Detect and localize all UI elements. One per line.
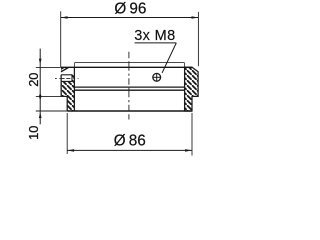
- arrow bottom (outside, pointing up): [39, 112, 42, 118]
- arrow diamond middle: [39, 93, 42, 100]
- spigot left vertical: [73, 62, 75, 67]
- left piece inner edge: [73, 67, 75, 111]
- inner spigot top thin line: [75, 61, 184, 63]
- arrow right: [192, 16, 199, 19]
- top face line: [61, 66, 192, 68]
- bottom face line: [67, 110, 192, 112]
- bore seat thick line: [74, 89, 184, 91]
- leader underline: [135, 42, 177, 44]
- extension line left (Ø96): [60, 11, 62, 67]
- left piece outer edge: [60, 75, 62, 97]
- dimension Ø86 line: [67, 149, 192, 151]
- flange section left piece: chamfer triangle (hatched): [61, 67, 69, 72]
- extension line bottom: [36, 110, 67, 112]
- chamfer triangle hatch gap: [61, 68, 65, 71]
- flange section left piece: sliver right of M8 hole end: [72, 75, 74, 82]
- arrow top (outside, pointing down): [39, 59, 42, 64]
- svg-text:3x M8: 3x M8: [134, 28, 175, 44]
- left piece step line: [61, 95, 67, 97]
- M8 hole centerline (dash-dot): [55, 77, 79, 79]
- extension line top (20): [36, 66, 61, 68]
- arrow right: [185, 149, 192, 152]
- dimension Ø96 line: [61, 17, 199, 19]
- left piece countersink chamfer line: [61, 67, 69, 72]
- svg-text:10: 10: [26, 126, 41, 140]
- extension line left (Ø86): [66, 113, 68, 154]
- leader line 3x M8: [162, 43, 176, 73]
- part vertical centerline (dash-dot): [128, 52, 130, 120]
- arrow left: [67, 149, 74, 152]
- extension line right (Ø96): [197, 12, 199, 66]
- svg-text:Ø 86: Ø 86: [114, 132, 146, 149]
- right piece outline: [185, 67, 199, 111]
- flange section left piece: body below M8 hole: [61, 81, 74, 111]
- M8 tapped hole symbol: [153, 73, 161, 81]
- extension line middle: [36, 95, 67, 97]
- spigot right vertical: [184, 62, 186, 67]
- svg-text:Ø 96: Ø 96: [114, 1, 146, 18]
- svg-text:20: 20: [26, 73, 41, 87]
- extension line right (Ø86): [191, 113, 193, 156]
- bore seat thin line: [74, 86, 184, 88]
- flange section right piece: [185, 67, 199, 111]
- M8 hole edge lines (left piece): [61, 74, 72, 76]
- left dimension line (20/10): [39, 49, 41, 125]
- arrow left: [61, 16, 68, 19]
- left piece lower outer edge: [66, 96, 68, 111]
